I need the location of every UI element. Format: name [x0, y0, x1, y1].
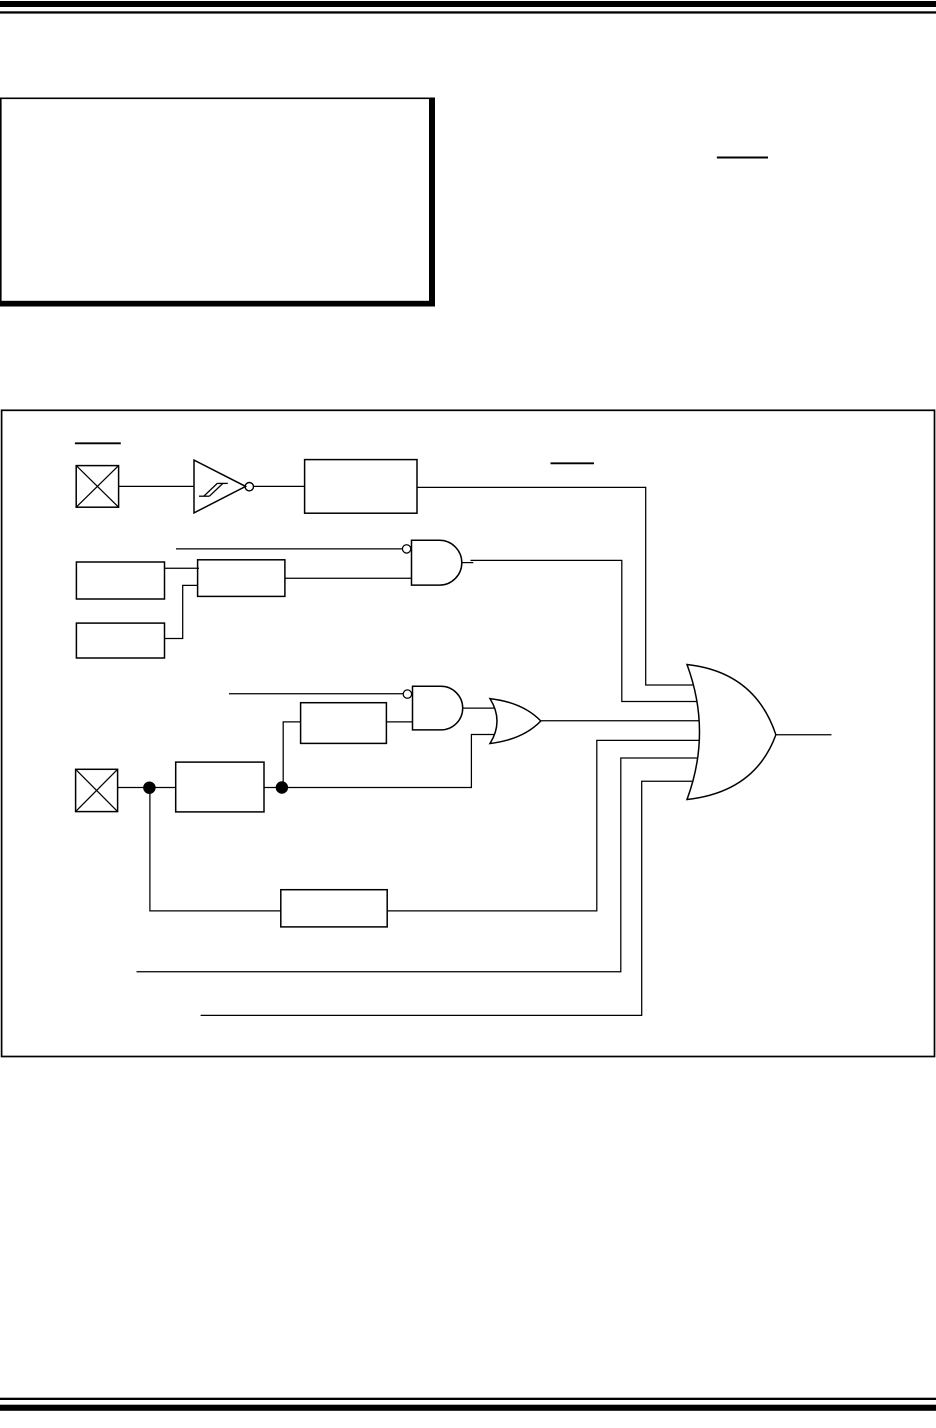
OR gate G3 (small) — [490, 699, 541, 744]
delay block D2 — [176, 762, 264, 812]
input pad X2 — [76, 769, 118, 811]
input pad X1 — [76, 466, 118, 508]
wire NAND G2 output to OR gate G3 — [463, 707, 495, 709]
feature box frame (thick right/bottom shadow) — [0, 98, 435, 307]
schmitt inverter U1 triangle — [194, 460, 246, 513]
NAND G1 output stub — [462, 562, 474, 564]
top rule — [0, 11, 936, 13]
wire inverter to delay block D1 — [253, 485, 304, 487]
wire D3 output to OR input 4 — [387, 740, 699, 911]
wire J1 down to delay block D3 — [150, 788, 281, 911]
wire NAND G1 output to OR input 2 — [471, 560, 697, 701]
bottom rule — [0, 1398, 936, 1400]
overline P1 pad label — [75, 442, 121, 444]
wire pad X1 to inverter — [119, 485, 194, 487]
overline (signal name at right of feature box) — [717, 157, 768, 159]
NAND gate G1 — [412, 540, 462, 585]
NAND gate G2 — [413, 686, 463, 730]
wire B3 output to NAND G1 lower input — [285, 577, 412, 579]
NAND G1 input bubble — [402, 545, 410, 553]
wire long input to OR input 6 — [201, 781, 693, 1015]
block B4 (middle register row 3) — [301, 703, 387, 744]
NAND G2 input bubble — [403, 690, 411, 698]
wire node A to B4 input — [283, 722, 300, 788]
top title bar — [0, 1, 936, 7]
delay block D1 — [305, 460, 417, 514]
wire pad X2 to delay block D2 — [118, 787, 176, 789]
schmitt hysteresis mark — [199, 483, 228, 496]
figure frame — [2, 410, 935, 1056]
junction node J1 — [144, 782, 155, 793]
wire B1 to block B3 — [165, 567, 200, 569]
wire OR G4 output — [776, 734, 831, 736]
wire OR G3 output to OR input 3 — [541, 720, 699, 722]
wire D2 output to OR G3 lower input — [264, 735, 495, 788]
wire D1 output to OR input 1 — [417, 487, 694, 685]
delay block D3 — [281, 890, 387, 927]
wire NAND G1 top input — [176, 548, 403, 550]
OR gate G4 (big output gate) — [687, 665, 776, 800]
wire B2 to B3 (zigzag) — [165, 585, 198, 638]
block B1 (upper left register) — [76, 562, 164, 599]
bottom footer bar — [0, 1405, 936, 1411]
wire NAND G2 top input — [229, 693, 403, 695]
wire long input to OR input 5 — [137, 758, 698, 972]
inverter output bubble — [245, 483, 253, 491]
overline (signal name above figure, right) — [551, 462, 595, 464]
junction node J2 — [276, 782, 287, 793]
block B2 (lower left register) — [76, 623, 164, 658]
block B3 (middle register) — [198, 560, 285, 597]
wire B4 output to NAND G2 lower input — [386, 721, 412, 723]
